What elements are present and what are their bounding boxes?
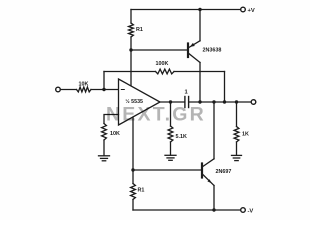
node junction top rail to Q1 emitter <box>198 8 201 11</box>
wire R1 bottom lead <box>130 37 132 50</box>
transistor Q1 2N3638 <box>188 10 221 103</box>
wire op-amp V+ pin <box>130 50 132 86</box>
wire 10K to ground <box>103 140 105 156</box>
wire feedback top right <box>174 71 225 73</box>
svg-text:1: 1 <box>185 90 189 96</box>
wire 5.1K top lead <box>170 102 172 126</box>
node 1K junction <box>235 100 238 103</box>
svg-text:R1: R1 <box>138 188 145 194</box>
svg-text:10K: 10K <box>79 81 89 87</box>
node feedback junction <box>223 100 226 103</box>
transistor Q2 2N697 <box>202 102 231 210</box>
terminal output <box>251 100 256 105</box>
node Q2 collector junction <box>212 100 215 103</box>
svg-text:1K: 1K <box>242 132 249 138</box>
resistor 10K (to ground) <box>102 124 107 141</box>
terminal input <box>56 87 61 92</box>
wire non-inverting input <box>104 115 119 124</box>
wire base of Q1 <box>131 49 187 51</box>
node 5.1K junction <box>169 100 172 103</box>
svg-text:NEXT.GR: NEXT.GR <box>106 103 206 125</box>
node inverting input junction <box>102 88 105 91</box>
svg-text:2N3638: 2N3638 <box>203 48 222 54</box>
svg-text:-V: -V <box>248 209 254 215</box>
wire R1 to bottom rail <box>132 200 134 211</box>
wire 1K to ground <box>236 142 238 155</box>
node B (Q2 base / R1 / op-amp V-) <box>131 168 134 171</box>
wire R1 top lead <box>130 10 132 24</box>
wire top rail +V <box>131 9 241 11</box>
node A (Q1 base / R1 / op-amp V+) <box>129 48 132 51</box>
svg-text:5.1K: 5.1K <box>176 134 187 140</box>
wire 1K top lead <box>236 102 238 127</box>
wire output row right <box>190 101 252 103</box>
terminal -V <box>241 208 246 213</box>
wire feedback right riser <box>224 72 226 103</box>
resistor 10K (input) <box>77 87 92 92</box>
wire feedback left riser <box>103 72 105 90</box>
wire input lead <box>60 89 76 91</box>
wire op-amp V- pin <box>132 117 134 170</box>
ground (below 10K) <box>99 156 110 161</box>
wire bottom rail -V <box>133 209 241 211</box>
resistor 5.1K <box>168 126 173 142</box>
svg-text:2N697: 2N697 <box>216 169 232 175</box>
wire output row left (op-amp out to cap) <box>160 101 184 103</box>
terminal +V <box>241 7 246 12</box>
wire base of Q2 <box>133 169 201 171</box>
node Q1 collector junction <box>198 100 201 103</box>
svg-text:+V: +V <box>248 8 255 14</box>
resistor R1 (top) <box>129 23 134 37</box>
resistor 1K <box>234 127 239 143</box>
op-amp U1 1/2 5535 <box>119 79 161 125</box>
wire 5.1K to ground <box>170 142 172 155</box>
svg-text:R1: R1 <box>136 27 143 33</box>
svg-text:100K: 100K <box>156 61 169 67</box>
ground (below 1K) <box>232 155 242 160</box>
wire feedback top left <box>104 71 156 73</box>
svg-text:10K: 10K <box>110 131 120 137</box>
ground (below 5.1K) <box>165 155 176 160</box>
resistor R1 (bottom) <box>132 170 134 184</box>
node junction Q2 emitter / rail <box>212 208 215 211</box>
wire to inverting input <box>91 89 119 91</box>
capacitor C1 value 1 <box>185 97 189 108</box>
resistor 100K (feedback) <box>156 69 175 74</box>
